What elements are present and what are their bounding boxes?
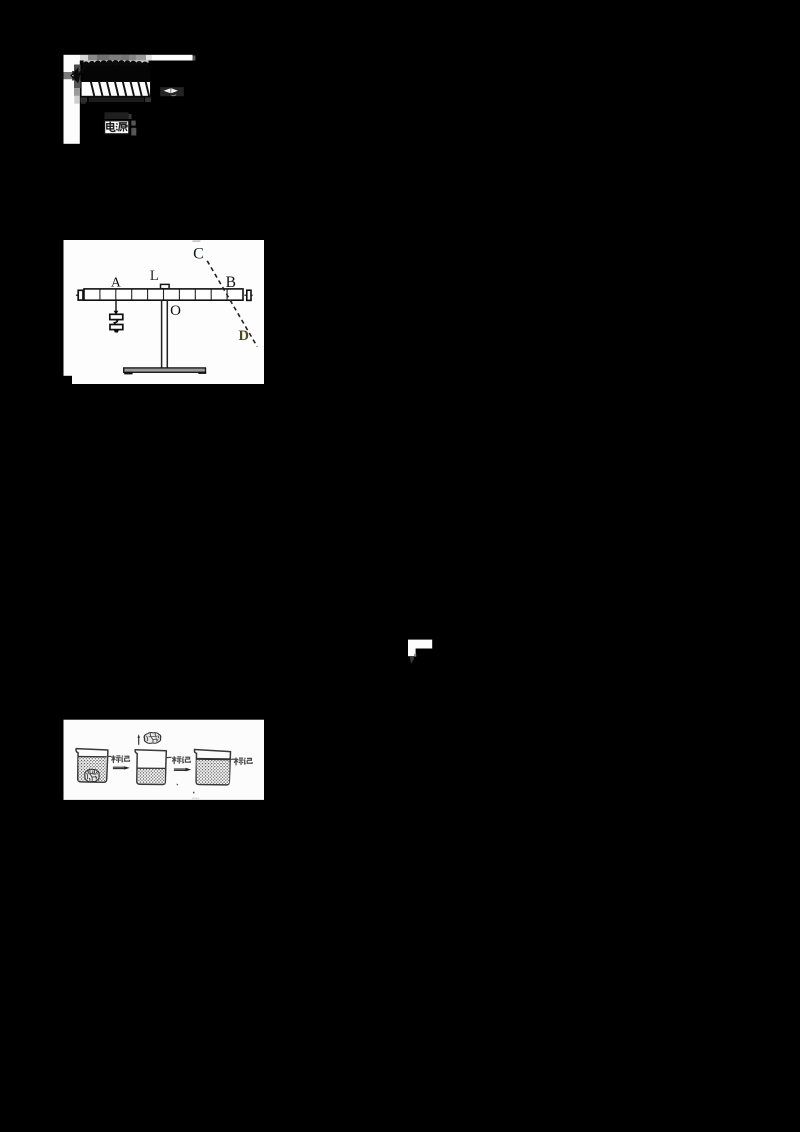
- dashed line C to D: [207, 261, 257, 347]
- weight 2: [110, 325, 123, 330]
- middle beaker water line: [138, 767, 166, 769]
- tiny mark under middle beaker: [176, 784, 178, 786]
- cord under A with arrowhead: [115, 300, 117, 312]
- hook below weight 2: [114, 330, 119, 333]
- gray blocks below arrow: [74, 80, 81, 88]
- left arrow (current direction): [70, 65, 86, 83]
- double arrow symbol (slide indicator): [160, 87, 184, 96]
- dark comma: [410, 656, 414, 663]
- small white mark near x=408,y=640: [408, 640, 432, 664]
- dark block around arrow: [72, 71, 81, 81]
- power source box 电源: [104, 120, 130, 135]
- glyph 电: [107, 122, 115, 132]
- right beaker water line: [196, 758, 229, 760]
- 标记 label 2: [172, 756, 190, 764]
- svg-text:L: L: [150, 268, 159, 284]
- FIGURE 3 : three beakers: [64, 720, 265, 800]
- left beaker outline: [76, 749, 108, 783]
- svg-text:D: D: [239, 328, 249, 344]
- coil top scalloped edge: [83, 60, 151, 81]
- right end cap: [244, 290, 252, 300]
- left foot: [124, 372, 132, 375]
- leader line to first 标记: [106, 755, 111, 757]
- FIGURE 1 : solenoid with power source: [64, 55, 196, 144]
- white figure box: [64, 720, 265, 800]
- right foot: [198, 372, 206, 374]
- left end cap: [76, 290, 83, 300]
- right beaker outline: [194, 750, 230, 785]
- white horizontal top strip: [64, 55, 193, 61]
- gray band left of arrow: [64, 72, 75, 79]
- leader line to third 标记: [231, 758, 235, 760]
- 标记 label 3: [234, 758, 252, 766]
- white vertical strip (left wire area): [64, 55, 80, 144]
- double arrow 1: [113, 766, 130, 769]
- light smudge bottom: [192, 797, 199, 800]
- stand base: [124, 368, 206, 372]
- ruler (lever bar): [84, 289, 243, 300]
- 标记 label 1: [111, 755, 129, 763]
- white figure box: [64, 240, 265, 384]
- hook on top of ruler: [161, 284, 170, 288]
- glyph 源: [116, 123, 127, 132]
- black notch bottom-left: [64, 376, 73, 384]
- stand column: [162, 300, 168, 368]
- leader line to second 标记: [166, 756, 171, 758]
- left beaker water line: [78, 756, 106, 758]
- white tab: [408, 649, 416, 657]
- ruler tick divisions: [100, 290, 227, 300]
- middle beaker outline: [135, 750, 166, 785]
- svg-text:A: A: [111, 275, 121, 290]
- gray block above arrow: [74, 65, 81, 72]
- white bar: [408, 640, 432, 649]
- lifted stone above middle beaker: [144, 733, 161, 744]
- coil striped band (front windings): [80, 81, 151, 98]
- tiny mark lower: [193, 792, 195, 795]
- hook between weights: [113, 320, 118, 325]
- weight 1: [110, 314, 123, 319]
- gray smudge above C: [193, 240, 201, 242]
- gray blocks right of power box: [131, 121, 135, 126]
- svg-text:B: B: [226, 274, 236, 291]
- svg-text:O: O: [170, 303, 181, 319]
- FIGURE 2 : lever on stand: [64, 240, 265, 384]
- dark row below band: [81, 98, 88, 103]
- stone in left beaker: [85, 769, 99, 782]
- gray blocks on top strip: [80, 55, 88, 61]
- right beaker water dots: [197, 760, 230, 784]
- svg-text:C: C: [193, 245, 204, 262]
- dark block above power-source box: [105, 112, 129, 119]
- middle beaker water dots: [138, 769, 165, 784]
- up arrow above middle beaker: [137, 734, 140, 745]
- left beaker water dots: [78, 757, 106, 781]
- gray nub: [414, 654, 416, 657]
- double arrow 2: [174, 768, 191, 772]
